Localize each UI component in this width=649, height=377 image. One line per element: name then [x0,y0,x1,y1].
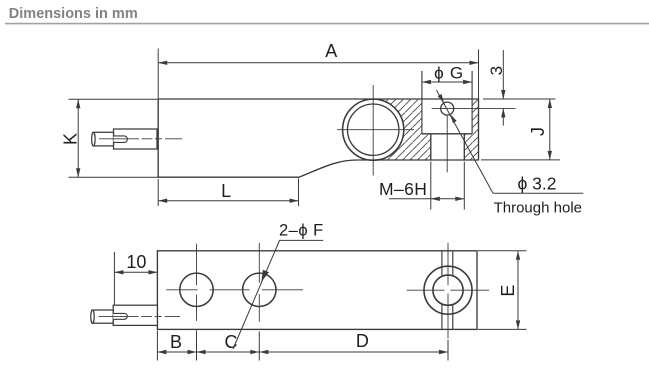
svg-text:ϕ 3.2: ϕ 3.2 [518,174,557,194]
svg-text:B: B [170,332,182,352]
svg-text:K: K [60,133,80,145]
svg-text:10: 10 [126,252,146,272]
svg-text:Dimensions in mm: Dimensions in mm [9,6,138,22]
svg-text:M–6H: M–6H [379,179,427,199]
svg-text:3: 3 [487,66,506,75]
svg-text:L: L [221,181,231,201]
svg-text:ϕ G: ϕ G [434,64,464,83]
svg-text:J: J [528,127,548,136]
svg-text:Through hole: Through hole [494,200,582,217]
svg-text:D: D [356,331,369,351]
svg-text:E: E [498,285,518,297]
svg-text:A: A [325,41,337,61]
svg-text:2–ϕ F: 2–ϕ F [279,222,324,240]
